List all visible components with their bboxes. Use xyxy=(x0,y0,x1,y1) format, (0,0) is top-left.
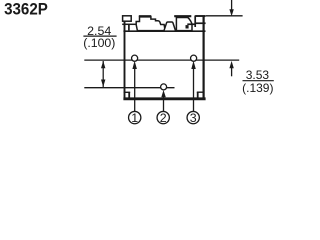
bottom left standoff notch xyxy=(124,91,131,93)
cover right boss roof xyxy=(174,15,191,17)
pin 1 lead arrow xyxy=(134,68,136,112)
svg-text:(.100): (.100) xyxy=(83,36,115,50)
left flange step xyxy=(128,24,130,30)
right dimension arrow bottom xyxy=(231,68,233,76)
body bottom edge xyxy=(123,97,205,100)
cover right boss xyxy=(176,18,192,31)
pin number 3 xyxy=(187,111,199,123)
wire: pin row 1 extension line xyxy=(84,59,239,61)
bottom right standoff notch xyxy=(197,91,204,93)
body top line xyxy=(123,30,205,32)
svg-text:3362P: 3362P xyxy=(4,0,48,19)
wire: pin row 2 extension line xyxy=(84,87,174,89)
left ear tab xyxy=(123,16,132,21)
cover center mound xyxy=(164,22,176,31)
pin number 2 xyxy=(157,111,169,123)
left dimension line 2.54 xyxy=(102,61,104,87)
svg-text:1: 1 xyxy=(131,111,138,125)
right dimension arrow top xyxy=(231,0,233,10)
cover left boss xyxy=(136,17,165,31)
left flange line xyxy=(122,23,136,25)
cover post xyxy=(194,16,196,28)
svg-text:(.139): (.139) xyxy=(242,81,273,95)
right flange bar xyxy=(195,22,206,24)
cover left boss roof xyxy=(139,15,152,17)
pin 2 lead arrow xyxy=(163,96,165,112)
cover shelf block xyxy=(186,25,189,28)
pin 1 hole xyxy=(132,55,138,61)
right dimension top extension xyxy=(206,15,243,17)
pin 2 hole xyxy=(161,84,167,90)
pin 3 lead arrow xyxy=(193,68,195,112)
cover shelf bar xyxy=(187,23,195,25)
svg-text:3: 3 xyxy=(190,111,197,125)
pin 3 hole xyxy=(191,55,197,61)
cover cap xyxy=(195,15,205,17)
pin number 1 xyxy=(129,111,141,123)
svg-text:2: 2 xyxy=(160,111,167,125)
svg-text:3.53: 3.53 xyxy=(246,68,270,82)
body right edge xyxy=(203,16,205,101)
body left edge xyxy=(124,16,126,100)
